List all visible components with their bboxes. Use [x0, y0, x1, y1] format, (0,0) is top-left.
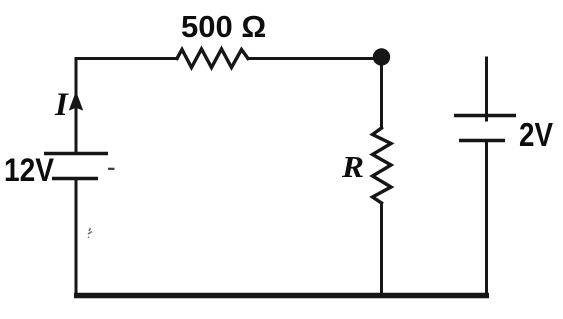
svg-text:12V: 12V — [4, 152, 55, 188]
svg-text:2V: 2V — [519, 116, 553, 153]
svg-text:I: I — [54, 87, 69, 123]
svg-text:500 Ω: 500 Ω — [181, 9, 266, 44]
svg-text:R: R — [341, 149, 364, 184]
